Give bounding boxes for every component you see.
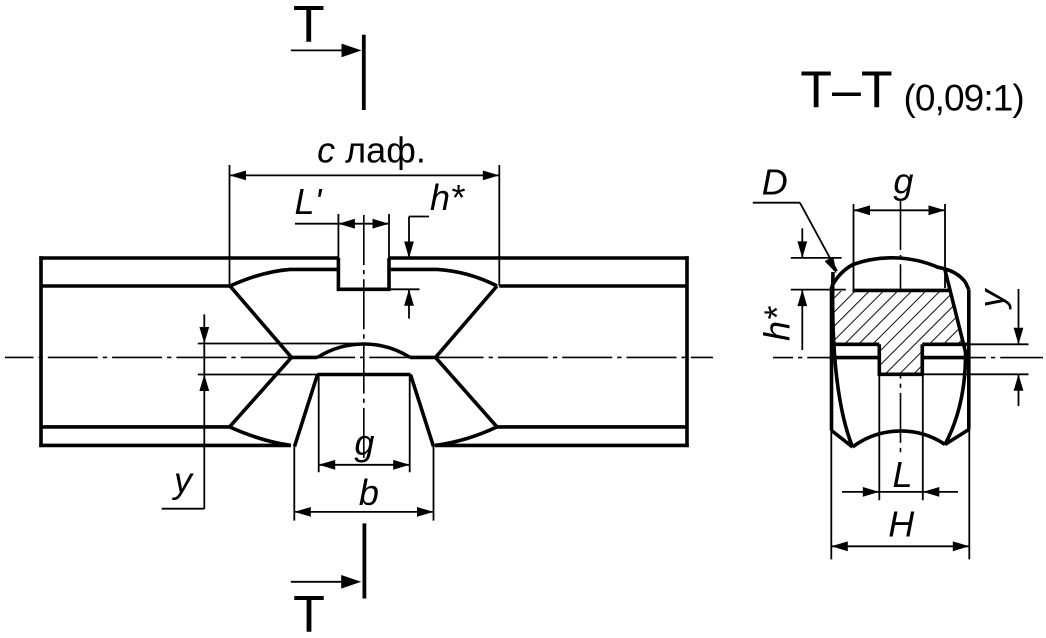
svg-text:L': L' (295, 181, 323, 222)
svg-text:y: y (171, 459, 194, 500)
svg-text:D: D (762, 161, 788, 202)
svg-text:b: b (359, 472, 379, 513)
svg-text:h*: h* (757, 306, 798, 341)
svg-text:L: L (892, 454, 912, 495)
svg-text:(0,09:1): (0,09:1) (904, 78, 1024, 119)
svg-text:T: T (293, 586, 325, 638)
svg-text:g: g (354, 422, 374, 463)
svg-text:c лаф.: c лаф. (317, 129, 426, 170)
svg-text:g: g (893, 160, 913, 201)
svg-text:T–T: T–T (800, 61, 892, 119)
svg-text:h*: h* (430, 177, 465, 218)
svg-text:T: T (293, 0, 325, 54)
svg-text:y: y (971, 288, 1012, 311)
svg-text:H: H (888, 503, 915, 544)
